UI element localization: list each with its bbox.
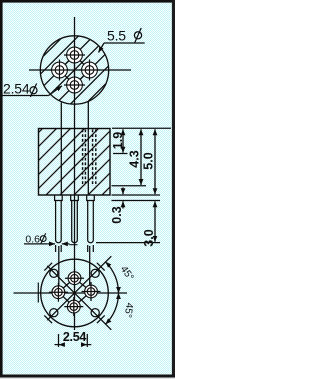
svg-text:2.54: 2.54 [63,330,86,344]
svg-text:4.3: 4.3 [128,150,142,167]
svg-text:45°: 45° [122,302,135,318]
svg-text:2.54: 2.54 [3,81,30,97]
svg-text:1.9: 1.9 [111,132,125,149]
svg-text:5.5: 5.5 [107,28,126,44]
svg-text:5.0: 5.0 [142,152,156,169]
svg-text:3.0: 3.0 [142,229,156,246]
svg-text:0.3: 0.3 [110,206,124,223]
